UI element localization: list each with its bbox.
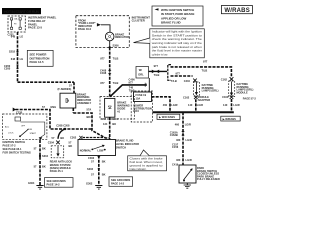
wire 57A BK/Y below diode <box>102 117 119 139</box>
brake warning indicator assembly box <box>60 92 91 108</box>
diagonal wire diode to 977 run <box>110 85 146 97</box>
svg-text:LG/R: LG/R <box>233 103 239 107</box>
wire label 977 <box>100 81 118 85</box>
splice S302 <box>87 167 100 171</box>
bracket <box>168 65 171 81</box>
diode box <box>105 98 130 117</box>
label fuse panel <box>28 16 57 30</box>
svg-text:▶ W/O RABS: ▶ W/O RABS <box>158 115 175 119</box>
note callout box with ignition text <box>134 29 205 58</box>
connector C406 labels <box>129 78 147 93</box>
svg-text:S304: S304 <box>42 154 49 158</box>
label RABS module <box>50 160 72 174</box>
svg-text:T/LB: T/LB <box>113 81 119 85</box>
wire 57 BK ignition run <box>16 105 93 129</box>
wire 460 park brake drop <box>175 112 191 165</box>
svg-text:FULLY RELEASED: FULLY RELEASED <box>197 177 220 181</box>
svg-text:LAMPS (DRL): LAMPS (DRL) <box>202 89 219 93</box>
svg-text:G302: G302 <box>86 182 93 186</box>
svg-text:BRAKE FLUID: BRAKE FLUID <box>161 21 181 25</box>
W/O RABS label box <box>157 114 180 119</box>
connector C230 arrow <box>13 108 16 112</box>
wire 648 LG fuse drop <box>11 32 23 82</box>
ground G302 <box>86 182 102 190</box>
svg-text:C419: C419 <box>172 162 179 166</box>
W/RABS title box <box>221 6 252 14</box>
arrow from park loop <box>97 23 101 26</box>
wire 977 cluster drop <box>100 47 118 96</box>
wire label 648 LG <box>11 57 23 61</box>
svg-text:START: START <box>30 132 37 135</box>
svg-text:C410: C410 <box>184 79 191 83</box>
connector X C304 <box>48 141 60 145</box>
svg-text:the fluid level in the master: the fluid level in the master master <box>152 50 202 53</box>
svg-text:LOW: LOW <box>97 148 104 152</box>
ignition switch dashed box <box>3 114 47 140</box>
wire 977 to bracket <box>149 64 168 77</box>
see grounds box right <box>109 177 133 187</box>
svg-text:RUN: RUN <box>28 129 33 131</box>
DRL adapter dashed box left <box>194 82 219 102</box>
svg-text:T/LB: T/LB <box>113 56 119 60</box>
svg-text:648: 648 <box>11 57 16 61</box>
svg-text:BK: BK <box>102 160 106 164</box>
svg-text:FUSE 19: FUSE 19 <box>136 93 147 97</box>
svg-text:977: 977 <box>100 56 105 60</box>
svg-text:SEE PAGE 96-1: SEE PAGE 96-1 <box>3 147 23 151</box>
instrument panel fuse box (dashed) <box>8 16 25 32</box>
callout with ignition switch note <box>152 6 203 26</box>
wire to brake indicator lamp <box>101 25 110 33</box>
wire 140 LG/R right drop to bus <box>223 99 240 112</box>
svg-text:LG/R: LG/R <box>186 158 192 162</box>
svg-text:BOX: BOX <box>133 109 139 113</box>
svg-text:C156: C156 <box>172 145 179 149</box>
svg-text:C408: C408 <box>100 71 107 75</box>
connector C302 <box>88 156 100 160</box>
connector X C410 <box>193 79 197 83</box>
callout closes with brake <box>128 150 167 171</box>
RABS module dashed box <box>51 146 64 158</box>
connector X C162 left <box>183 95 198 99</box>
svg-text:W/: W/ <box>139 68 142 72</box>
svg-text:648: 648 <box>11 35 16 39</box>
svg-text:977: 977 <box>100 81 105 85</box>
svg-text:460: 460 <box>176 138 181 142</box>
svg-text:T/LB: T/LB <box>202 68 208 72</box>
fuse F1 <box>10 18 12 30</box>
wire 57 BK fluid ground <box>91 156 106 186</box>
svg-text:460: 460 <box>175 122 180 126</box>
svg-text:C200: C200 <box>4 67 11 71</box>
svg-text:warning indicator will stay on: warning indicator will stay on if the <box>152 42 203 45</box>
svg-text:NORMAL: NORMAL <box>80 148 92 152</box>
header HOT IN START OR RUN <box>2 8 41 14</box>
svg-text:C162: C162 <box>183 95 190 99</box>
svg-text:BK/Y: BK/Y <box>112 117 118 121</box>
svg-text:S302: S302 <box>87 167 94 171</box>
svg-text:LG/R: LG/R <box>185 122 191 126</box>
svg-text:Indicator will light with the: Indicator will light with the Ignition <box>152 31 203 34</box>
svg-text:977: 977 <box>154 64 159 68</box>
svg-text:ASSEMBLY: ASSEMBLY <box>77 101 91 105</box>
svg-text:W/RABS: W/RABS <box>224 8 250 14</box>
see grounds box left <box>45 178 74 188</box>
svg-text:SEE GROUNDS: SEE GROUNDS <box>47 179 66 183</box>
wire run to fluid switch <box>73 113 110 138</box>
svg-text:(F-SERIES): (F-SERIES) <box>58 87 72 91</box>
wire label 57 BK <box>91 173 106 177</box>
connector C200 <box>4 64 19 71</box>
svg-text:PAGE 14-2: PAGE 14-2 <box>47 183 61 187</box>
wire through small box to power box <box>148 78 150 92</box>
svg-text:ACC: ACC <box>5 126 10 129</box>
svg-text:HOT IN START OR RUN: HOT IN START OR RUN <box>4 10 39 14</box>
fuse in power box <box>133 92 152 113</box>
svg-text:C162: C162 <box>221 78 228 82</box>
svg-text:460: 460 <box>176 158 181 162</box>
wire label 57 BK rabs drop <box>69 141 73 148</box>
see power distribution box <box>27 50 53 66</box>
wire lamp to S206 <box>109 41 111 48</box>
svg-text:MODULE: MODULE <box>237 90 249 94</box>
svg-text:FOR SWITCH TESTING: FOR SWITCH TESTING <box>3 150 31 154</box>
svg-text:460: 460 <box>163 103 168 107</box>
svg-text:LG/R: LG/R <box>171 103 177 107</box>
svg-text:cylinder is low.: cylinder is low. <box>152 53 168 56</box>
wire 140 LG/R left drop to bus <box>188 99 203 112</box>
ground G304 <box>28 181 44 189</box>
svg-text:G304: G304 <box>28 181 35 185</box>
connector C302 fluid box entry <box>70 135 106 139</box>
label brake fluid level switch <box>116 139 139 150</box>
svg-text:LEVEL INDICATOR: LEVEL INDICATOR <box>116 142 139 146</box>
svg-text:C163B: C163B <box>170 133 178 137</box>
svg-text:PAGE 13-5: PAGE 13-5 <box>30 60 45 64</box>
svg-text:SWITCH: SWITCH <box>116 145 126 149</box>
svg-text:BRAKE FLUID: BRAKE FLUID <box>116 139 134 143</box>
wire drop into warning assembly <box>73 82 75 93</box>
wire 648 horizontal run <box>18 82 75 91</box>
label instrument cluster <box>132 15 151 22</box>
park brake switch box <box>179 165 220 183</box>
svg-text:PAGE 14-2: PAGE 14-2 <box>111 182 125 186</box>
svg-text:BK: BK <box>69 144 73 148</box>
svg-text:check the warning indicator.: check the warning indicator. The <box>152 38 203 41</box>
svg-text:ENG: ENG <box>51 105 57 109</box>
svg-text:BK: BK <box>112 122 116 126</box>
wire 977 second branch to DRL adapter <box>171 72 193 83</box>
svg-text:BK: BK <box>60 136 64 140</box>
svg-text:BK: BK <box>102 173 106 177</box>
connector C163A C163B <box>170 130 185 137</box>
svg-text:140: 140 <box>223 103 228 107</box>
svg-text:977: 977 <box>203 59 208 63</box>
instrument cluster dashed box <box>76 16 129 48</box>
small label box W/DRL <box>136 67 149 79</box>
W/RABS label box <box>221 116 240 121</box>
splice S206 <box>109 44 120 49</box>
svg-text:T/LB: T/LB <box>154 73 160 77</box>
svg-text:PAGE 13-5: PAGE 13-5 <box>28 26 43 30</box>
svg-text:IGNITION SWITCH: IGNITION SWITCH <box>3 140 26 144</box>
wire 57A BK/Y from assembly <box>73 108 93 119</box>
svg-text:C302: C302 <box>88 156 95 160</box>
brake indicator lamp <box>105 32 129 41</box>
svg-text:PAGE 45-1: PAGE 45-1 <box>50 169 64 173</box>
splice junction to RABS <box>52 128 67 140</box>
connector X C163 right <box>222 95 233 99</box>
svg-text:LG/R: LG/R <box>197 103 203 107</box>
svg-text:C230: C230 <box>16 111 23 115</box>
connector C208 labels <box>56 124 70 128</box>
svg-text:brake indicator.: brake indicator. <box>130 168 147 171</box>
svg-text:C302: C302 <box>70 135 77 139</box>
brake fluid level switch box <box>78 140 116 156</box>
brake warning diode dashed box <box>100 97 135 120</box>
svg-text:S218: S218 <box>9 50 16 54</box>
splice S304 <box>39 154 49 158</box>
connector X C162 <box>230 77 234 81</box>
wire 57 BK ignition ground <box>34 140 46 186</box>
wire labels 460 LG/R <box>172 138 192 167</box>
svg-text:PAGE 57-2: PAGE 57-2 <box>243 97 257 101</box>
svg-text:C304: C304 <box>48 141 55 145</box>
svg-text:57A: 57A <box>87 108 92 112</box>
svg-text:T/LB: T/LB <box>171 79 177 83</box>
connector C408 <box>100 68 111 75</box>
wire 460 LG/R from power box <box>152 97 178 112</box>
svg-text:DRL: DRL <box>138 73 144 77</box>
svg-text:LOCK: LOCK <box>8 133 14 135</box>
bus wire <box>153 111 234 113</box>
svg-text:LG: LG <box>20 57 24 61</box>
svg-text:124: 124 <box>103 122 108 126</box>
DRL module dashed box right <box>229 81 257 101</box>
svg-text:140: 140 <box>188 103 193 107</box>
svg-text:park brake is not released or: park brake is not released or when <box>152 46 203 49</box>
svg-text:PAGE 40-0: PAGE 40-0 <box>78 27 92 31</box>
svg-text:PAGE 57-2: PAGE 57-2 <box>3 144 17 148</box>
svg-text:CLUSTER: CLUSTER <box>132 19 145 23</box>
svg-text:LG/R: LG/R <box>186 138 192 142</box>
svg-text:SEE GROUNDS: SEE GROUNDS <box>111 178 130 182</box>
svg-text:BK: BK <box>42 164 46 168</box>
svg-text:C163: C163 <box>222 95 229 99</box>
svg-text:S206: S206 <box>113 44 120 48</box>
svg-text:C208 C208: C208 C208 <box>56 124 70 128</box>
ground park brake <box>184 183 191 188</box>
svg-text:▶ W/RABS: ▶ W/RABS <box>222 117 237 121</box>
svg-text:BK: BK <box>42 146 46 150</box>
wire label 57 BK <box>34 164 46 168</box>
svg-text:ADAPTER: ADAPTER <box>198 98 211 102</box>
label ignition switch <box>3 140 31 154</box>
splice S218 <box>9 50 19 54</box>
wire 977 top branch to DRL module <box>171 59 232 81</box>
svg-text:INDICATOR: INDICATOR <box>115 35 129 39</box>
svg-text:57A: 57A <box>102 117 107 121</box>
power distribution box dashed <box>131 91 152 122</box>
from park loop text <box>78 18 97 30</box>
fuse F2 <box>14 18 21 30</box>
svg-text:15A: 15A <box>136 97 141 101</box>
svg-text:977: 977 <box>129 80 134 84</box>
svg-text:LG: LG <box>20 35 24 39</box>
svg-text:Switch in the START position t: Switch in the START position to <box>152 34 203 37</box>
svg-text:977: 977 <box>176 72 181 76</box>
